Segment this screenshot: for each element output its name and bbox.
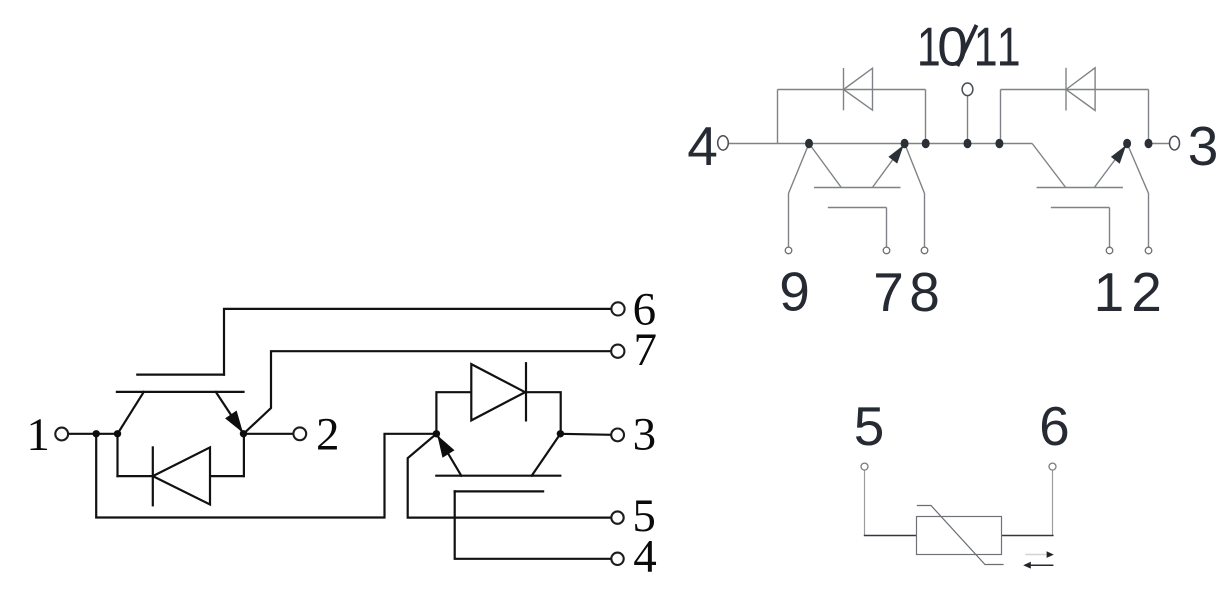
svg-text:1: 1 xyxy=(997,17,1021,78)
svg-text:3: 3 xyxy=(1188,115,1219,177)
svg-text:0: 0 xyxy=(937,16,968,78)
svg-text:9: 9 xyxy=(779,261,810,323)
svg-text:1: 1 xyxy=(26,409,50,461)
svg-text:7: 7 xyxy=(634,324,658,376)
svg-text:2: 2 xyxy=(316,409,340,461)
svg-text:8: 8 xyxy=(909,261,940,323)
svg-text:1: 1 xyxy=(1094,261,1125,323)
svg-text:4: 4 xyxy=(687,115,718,177)
svg-text:4: 4 xyxy=(633,531,657,583)
svg-text:7: 7 xyxy=(873,261,904,323)
svg-text:2: 2 xyxy=(1131,261,1162,323)
svg-text:5: 5 xyxy=(854,395,885,457)
svg-text:6: 6 xyxy=(1039,395,1070,457)
svg-text:3: 3 xyxy=(633,409,657,461)
